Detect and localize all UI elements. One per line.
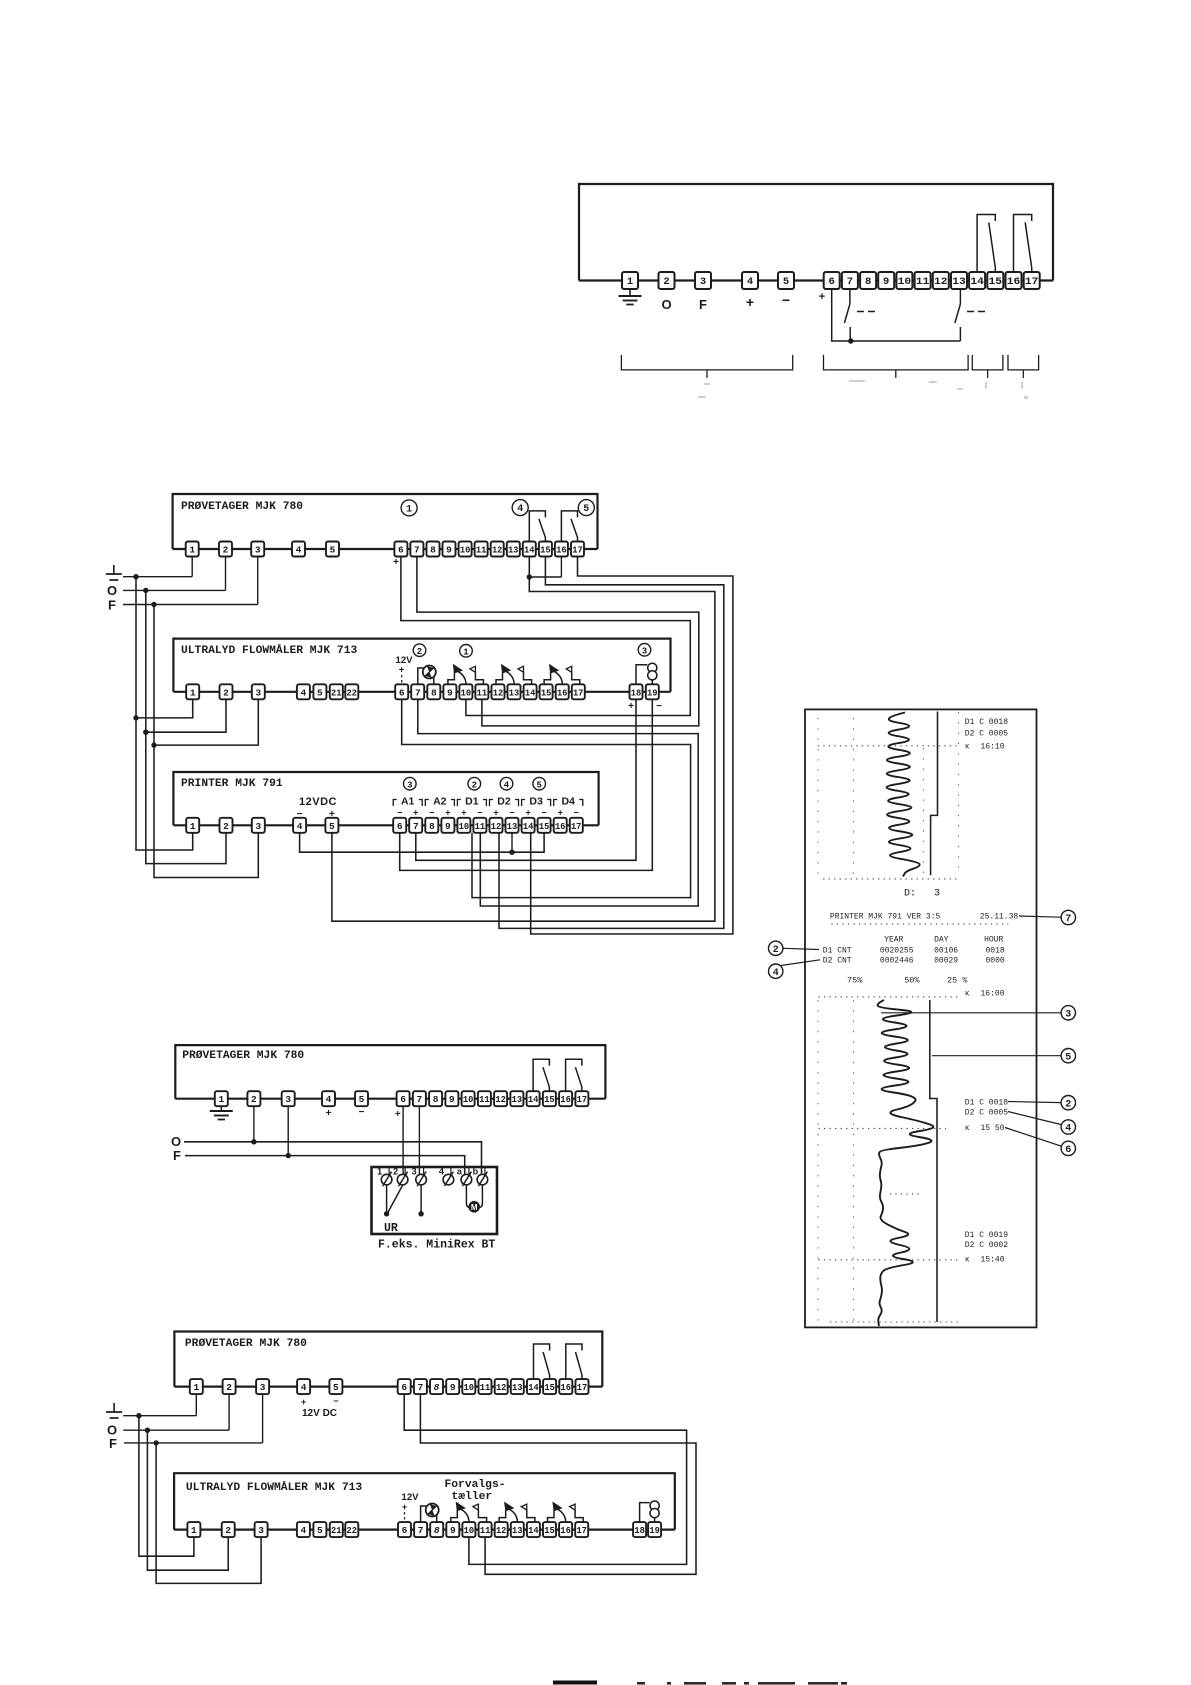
UR screw terminal 2 <box>397 1174 408 1185</box>
svg-text:D2 C 0005: D2 C 0005 <box>965 730 1008 739</box>
terminal 13 (sampler 2) <box>510 1091 523 1106</box>
terminal row wire <box>173 548 598 550</box>
terminal 7 (printer) <box>409 818 422 833</box>
dotted grid line <box>818 745 959 747</box>
UR contact 1-2 <box>386 1185 388 1214</box>
svg-text:0002446: 0002446 <box>880 957 914 966</box>
channel label D2 <box>490 800 494 807</box>
svg-text:00029: 00029 <box>934 957 958 966</box>
dotted grid line <box>819 1127 947 1129</box>
linkage dash <box>967 311 974 313</box>
earth riser to flow meter 1 <box>139 1416 194 1557</box>
circled number 1 <box>401 500 417 516</box>
terminal 9 (flow meter) <box>443 684 456 699</box>
earth bus wire <box>123 576 192 578</box>
terminal 2 (printer) <box>220 818 233 833</box>
wire 2 down <box>253 1106 255 1142</box>
svg-text:+: + <box>558 808 563 818</box>
svg-text:9: 9 <box>447 687 453 698</box>
dotted grid line <box>823 878 957 880</box>
terminal 9 (top strip) <box>878 272 894 289</box>
wire terminal 6 down and across <box>832 288 961 341</box>
svg-text:+: + <box>628 701 634 712</box>
O riser to flowmeter 2 and printer 2 <box>146 590 226 863</box>
circled number 2 <box>1061 1096 1075 1110</box>
svg-text:2: 2 <box>417 647 422 657</box>
pulse contact 9-10-11 <box>451 1510 458 1523</box>
svg-text:M: M <box>471 1203 478 1212</box>
channel label D3 <box>522 800 526 807</box>
terminal 2 (flow meter 2) <box>222 1522 235 1537</box>
terminal 1 (top strip) <box>622 272 638 289</box>
terminal 19 (flow meter 2) <box>648 1522 661 1537</box>
terminal row wire <box>174 1385 602 1387</box>
svg-text:4: 4 <box>297 821 303 832</box>
svg-text:3: 3 <box>260 1382 266 1393</box>
terminal 12 (sampler 3) <box>495 1379 508 1394</box>
ground <box>210 1110 233 1112</box>
svg-text:14: 14 <box>524 545 535 556</box>
svg-text:PRINTER MJK 791 VER 3:5: PRINTER MJK 791 VER 3:5 <box>830 913 941 922</box>
terminal 8 (flow meter 2) <box>430 1522 443 1537</box>
svg-text:5: 5 <box>317 687 323 698</box>
terminal 8 (sampler) <box>427 542 440 557</box>
circled number 2 <box>468 777 481 790</box>
top terminal-strip box <box>579 184 1053 281</box>
terminal 5 (flow meter 2) <box>313 1522 326 1537</box>
svg-text:15: 15 <box>544 1094 555 1105</box>
svg-text:3: 3 <box>934 889 940 900</box>
svg-text:21: 21 <box>331 687 342 698</box>
junction F <box>286 1153 291 1158</box>
junction UR 1-2 <box>384 1211 389 1216</box>
svg-text:D1 C 0019: D1 C 0019 <box>965 1231 1008 1240</box>
svg-text:19: 19 <box>649 1525 660 1536</box>
terminal 9 (sampler 2) <box>445 1091 458 1106</box>
linkage dash <box>857 311 864 313</box>
svg-text:7: 7 <box>418 1382 424 1393</box>
terminal 19 (flow meter) <box>646 684 659 699</box>
relay contact 16-17 <box>566 1344 582 1379</box>
svg-text:10: 10 <box>461 687 472 698</box>
svg-text:10: 10 <box>464 1382 475 1393</box>
junction earth <box>136 1413 141 1418</box>
terminal 10 (sampler 2) <box>462 1091 475 1106</box>
svg-text:tæller: tæller <box>452 1491 493 1503</box>
F bus wire <box>123 604 258 606</box>
svg-text:2: 2 <box>663 276 669 288</box>
junction 14 <box>527 574 532 579</box>
terminal 6 (printer) <box>393 818 406 833</box>
terminal 7 (sampler 2) <box>413 1091 426 1106</box>
svg-text:11: 11 <box>916 276 930 288</box>
pulse contact 12-13-14 <box>496 672 503 685</box>
terminal 13 (flow meter 2) <box>511 1522 524 1537</box>
terminal 9 (sampler 3) <box>446 1379 459 1394</box>
svg-text:+: + <box>525 808 530 818</box>
svg-text:9: 9 <box>446 545 452 556</box>
terminal 3 (printer) <box>252 818 265 833</box>
wire flowmeter 7 to printer 11 <box>418 699 698 906</box>
svg-text:14: 14 <box>525 687 536 698</box>
svg-text:13: 13 <box>509 687 520 698</box>
terminal 22 (flow meter 2) <box>345 1522 358 1537</box>
svg-text:4: 4 <box>1065 1124 1071 1135</box>
svg-text:UR: UR <box>384 1222 398 1235</box>
svg-text:18: 18 <box>634 1525 645 1536</box>
svg-text:2: 2 <box>223 821 229 832</box>
terminal 16 (sampler 2) <box>559 1091 572 1106</box>
svg-text:4: 4 <box>517 504 523 515</box>
F wire to UR terminal a <box>185 1156 465 1175</box>
svg-text:YEAR: YEAR <box>884 935 903 944</box>
terminal 17 (sampler) <box>571 542 584 557</box>
junction O <box>143 588 148 593</box>
terminal 15 (printer) <box>538 818 551 833</box>
svg-text:22: 22 <box>347 1525 358 1536</box>
ground under terminal 1 <box>629 288 631 296</box>
svg-text:1: 1 <box>463 647 469 657</box>
svg-text:ULTRALYD FLOWMÅLER MJK 713: ULTRALYD FLOWMÅLER MJK 713 <box>181 644 357 657</box>
svg-text:22: 22 <box>347 687 358 698</box>
svg-text:D2 C 0002: D2 C 0002 <box>965 1241 1008 1250</box>
svg-text:D1 C 0018: D1 C 0018 <box>965 1098 1008 1107</box>
svg-text:2: 2 <box>472 780 477 790</box>
terminal 5 (sampler 2) <box>355 1091 368 1106</box>
svg-text:1: 1 <box>189 545 195 556</box>
svg-text:8: 8 <box>429 821 435 832</box>
svg-text:D2 C 0005: D2 C 0005 <box>965 1108 1008 1117</box>
cut-off diagram fragments at page bottom <box>553 1681 597 1685</box>
svg-text:13: 13 <box>512 1382 523 1393</box>
svg-text:3: 3 <box>407 780 412 790</box>
terminal 14 (sampler 2) <box>527 1091 540 1106</box>
terminal row wire <box>579 279 1053 281</box>
svg-text:D1 C 0018: D1 C 0018 <box>965 718 1008 727</box>
terminal 6 (top strip) <box>824 272 840 289</box>
svg-text:13: 13 <box>512 1094 523 1105</box>
terminal 17 (flow meter 2) <box>575 1522 588 1537</box>
svg-text:6: 6 <box>1065 1145 1071 1156</box>
callout 5 <box>932 1055 1061 1057</box>
svg-text:16: 16 <box>561 1382 572 1393</box>
svg-text:D4: D4 <box>561 796 575 808</box>
junction <box>848 338 853 343</box>
svg-text:5: 5 <box>333 1382 339 1393</box>
svg-text:1: 1 <box>218 1094 224 1105</box>
svg-text:2: 2 <box>251 1094 257 1105</box>
svg-text:+: + <box>493 808 498 818</box>
box PROVETAGER MJK 780 (diagram 1) <box>173 494 598 549</box>
svg-text:16:10: 16:10 <box>981 743 1005 752</box>
terminal 14 (sampler) <box>523 542 536 557</box>
svg-text:1: 1 <box>190 821 196 832</box>
wire sampler3-6 to flowmeter 10 <box>404 1394 686 1564</box>
terminal 16 (top strip) <box>1006 272 1022 289</box>
dotted grid line <box>817 718 819 876</box>
terminal 4 (sampler 2) <box>322 1091 335 1106</box>
terminal 16 (printer) <box>554 818 567 833</box>
svg-text:4: 4 <box>326 1094 332 1105</box>
svg-text:12VDC: 12VDC <box>299 796 337 808</box>
terminal 2 (top strip) <box>659 272 675 289</box>
terminal 9 (printer) <box>441 818 454 833</box>
svg-text:κ: κ <box>965 743 970 752</box>
relay contact 16-17 <box>566 1059 582 1091</box>
svg-text:0020255: 0020255 <box>880 947 914 956</box>
terminal 2 (sampler) <box>219 542 232 557</box>
terminal 3 (flow meter) <box>252 684 265 699</box>
svg-text:F: F <box>109 1436 117 1451</box>
svg-text:6: 6 <box>398 545 404 556</box>
svg-text:+: + <box>326 1108 332 1119</box>
UR screw terminal 3 <box>416 1174 427 1185</box>
svg-text:b: b <box>473 1167 479 1177</box>
wire printer 4 to 13/15 (minus bus) <box>300 833 544 852</box>
wire sampler 6 to flowmeter 10 <box>401 557 690 716</box>
setpoint step line lower <box>930 1000 937 1322</box>
terminal 14 (flow meter 2) <box>527 1522 540 1537</box>
terminal 4 (flow meter) <box>297 684 310 699</box>
terminal 10 (flow meter) <box>459 684 472 699</box>
svg-text:F.eks. MiniRex BT: F.eks. MiniRex BT <box>378 1239 495 1252</box>
setpoint step line upper <box>931 712 938 876</box>
terminal 8 (sampler 3) <box>430 1379 443 1394</box>
svg-text:12: 12 <box>496 1525 507 1536</box>
svg-text:−: − <box>541 808 546 818</box>
svg-text:6: 6 <box>401 1382 407 1393</box>
terminal 12 (flow meter 2) <box>495 1522 508 1537</box>
svg-text:7: 7 <box>415 687 421 698</box>
terminal 21 (flow meter) <box>330 684 343 699</box>
svg-text:6: 6 <box>400 1094 406 1105</box>
switch contact under 13 <box>959 288 961 304</box>
svg-text:4: 4 <box>301 1525 307 1536</box>
F riser to flow meter 3 <box>156 1443 261 1584</box>
svg-text:8: 8 <box>431 687 437 698</box>
terminal 7 (sampler 3) <box>414 1379 427 1394</box>
terminal 16 (sampler) <box>555 542 568 557</box>
svg-text:−: − <box>397 808 402 818</box>
terminal 11 (sampler 2) <box>478 1091 491 1106</box>
svg-text:+: + <box>395 1109 401 1120</box>
svg-text:−: − <box>429 808 434 818</box>
UR terminal 3 lead <box>420 1185 422 1214</box>
svg-text:17: 17 <box>576 1525 587 1536</box>
svg-text:+: + <box>461 808 466 818</box>
dotted grid line <box>853 718 855 876</box>
UR motor M <box>465 1185 467 1203</box>
svg-text:3: 3 <box>412 1167 417 1177</box>
svg-text:21: 21 <box>331 1525 342 1536</box>
svg-text:14: 14 <box>528 1094 539 1105</box>
svg-text:5: 5 <box>359 1094 365 1105</box>
svg-text:12: 12 <box>492 545 503 556</box>
terminal 13 (top strip) <box>951 272 967 289</box>
svg-text:F: F <box>108 598 116 613</box>
flow curve upper chart <box>887 713 920 877</box>
callout 2 right <box>1008 1102 1061 1103</box>
terminal 15 (sampler 3) <box>543 1379 556 1394</box>
bracket terminals 16-17 <box>1008 355 1039 370</box>
svg-text:14: 14 <box>523 821 534 832</box>
svg-text:2: 2 <box>773 945 779 956</box>
svg-text:16: 16 <box>560 1094 571 1105</box>
circled number 7 <box>1061 910 1075 924</box>
junction F <box>151 602 156 607</box>
circled number 5 <box>533 777 546 790</box>
O bus <box>123 1429 229 1431</box>
svg-text:3: 3 <box>1065 1009 1071 1020</box>
pulse contact 12-13-14 <box>499 1510 506 1523</box>
svg-text:10: 10 <box>898 276 912 288</box>
terminal row wire <box>173 824 598 826</box>
pulse contact 15-16-17 <box>548 1510 555 1523</box>
terminal 10 (flow meter 2) <box>462 1522 475 1537</box>
bracket terminals 14-15 <box>972 355 1003 370</box>
svg-text:15:40: 15:40 <box>981 1255 1005 1264</box>
dotted grid line <box>819 996 960 998</box>
svg-text:+: + <box>445 808 450 818</box>
svg-text:25 %: 25 % <box>947 976 968 986</box>
terminal 5 (printer) <box>325 818 338 833</box>
svg-text:4: 4 <box>747 276 753 288</box>
linkage dash <box>978 311 985 313</box>
svg-text:PRØVETAGER MJK 780: PRØVETAGER MJK 780 <box>182 1050 304 1062</box>
flow meter symbol <box>640 1503 650 1523</box>
wire flowmeter 19 to printer 6 <box>400 699 653 870</box>
dotted grid line <box>819 1259 960 1261</box>
circled number 3 <box>638 644 651 657</box>
terminal 3 (top strip) <box>695 272 711 289</box>
svg-text:5: 5 <box>330 545 336 556</box>
svg-text:5: 5 <box>583 504 589 515</box>
faint caption remnants <box>704 383 710 385</box>
terminal 7 (sampler) <box>410 542 423 557</box>
terminal 13 (printer) <box>506 818 519 833</box>
svg-text:10: 10 <box>463 1094 474 1105</box>
junction O <box>251 1139 256 1144</box>
svg-text:00106: 00106 <box>934 947 958 956</box>
ground <box>619 295 642 297</box>
relay contact 16-17 <box>561 511 577 542</box>
svg-text:D2: D2 <box>497 796 511 808</box>
O wire to UR terminal b <box>184 1142 482 1175</box>
terminal 7 (flow meter) <box>411 684 424 699</box>
O riser to flow meter 2 <box>147 1430 228 1570</box>
svg-text:17: 17 <box>577 1382 588 1393</box>
channel label A2 <box>425 800 429 807</box>
svg-text:+: + <box>402 1502 408 1513</box>
svg-text:17: 17 <box>571 821 582 832</box>
svg-text:D1: D1 <box>465 796 479 808</box>
svg-text:3: 3 <box>285 1094 291 1105</box>
wire 3 down <box>287 1106 289 1156</box>
junction <box>151 742 156 747</box>
callout 3 <box>881 1012 1061 1014</box>
terminal 17 (sampler 2) <box>575 1091 588 1106</box>
channel label A1 <box>393 800 397 807</box>
svg-text:O: O <box>661 297 671 312</box>
svg-text:−: − <box>509 808 514 818</box>
svg-text:8: 8 <box>430 545 436 556</box>
svg-text:9: 9 <box>450 1382 456 1393</box>
circled number 4 <box>512 500 528 516</box>
svg-text:6: 6 <box>829 276 835 288</box>
terminal 1 (sampler 2) <box>215 1091 228 1106</box>
F riser to flowmeter 3 and printer 3 <box>154 605 258 878</box>
svg-text:8: 8 <box>434 1525 440 1536</box>
terminal 15 (top strip) <box>987 272 1003 289</box>
svg-text:17: 17 <box>572 545 583 556</box>
svg-text:2: 2 <box>223 545 229 556</box>
motor/clock symbol <box>423 666 436 679</box>
svg-text:D:: D: <box>904 889 916 900</box>
pulse contact 9-10-11 <box>448 672 455 685</box>
wire 7 down to UR 3 <box>418 1106 420 1175</box>
terminal 17 (printer) <box>570 818 583 833</box>
terminal 2 (sampler 2) <box>247 1091 260 1106</box>
terminal 17 (sampler 3) <box>576 1379 589 1394</box>
terminal 11 (sampler) <box>475 542 488 557</box>
svg-text:A2: A2 <box>433 796 447 808</box>
terminal 10 (sampler 3) <box>462 1379 475 1394</box>
wire flowmeter 6 to printer 10 <box>402 699 691 897</box>
svg-text:17: 17 <box>573 687 584 698</box>
svg-text:14: 14 <box>528 1382 539 1393</box>
svg-text:11: 11 <box>476 545 487 556</box>
relay contact 14-15 <box>529 511 545 542</box>
terminal 12 (sampler 2) <box>494 1091 507 1106</box>
svg-text:9: 9 <box>883 276 889 288</box>
terminal 16 (flow meter 2) <box>559 1522 572 1537</box>
relay contact 16-17 <box>1014 215 1032 272</box>
box PROVETAGER MJK 780 (diagram 2) <box>175 1045 605 1099</box>
junction <box>133 715 138 720</box>
terminal row wire <box>173 691 670 693</box>
svg-text:11: 11 <box>480 1525 491 1536</box>
svg-text:DAY: DAY <box>934 935 949 944</box>
ground under terminal 1 <box>220 1106 222 1111</box>
svg-text:F: F <box>699 297 707 312</box>
svg-text:D2 CNT: D2 CNT <box>823 957 852 966</box>
terminal 5 (sampler) <box>326 542 339 557</box>
svg-text:14: 14 <box>970 276 984 288</box>
terminal 15 (flow meter 2) <box>543 1522 556 1537</box>
svg-text:11: 11 <box>480 1382 491 1393</box>
terminal 1 (sampler 3) <box>190 1379 203 1394</box>
svg-text:3: 3 <box>642 646 647 656</box>
svg-text:κ: κ <box>965 990 970 999</box>
svg-text:13: 13 <box>952 276 966 288</box>
terminal 16 (sampler 3) <box>559 1379 572 1394</box>
switch contact under 7 <box>849 288 851 304</box>
UR screw terminal a <box>461 1174 472 1185</box>
svg-text:2: 2 <box>225 1525 231 1536</box>
svg-text:8: 8 <box>865 276 871 288</box>
svg-text:−: − <box>656 701 662 712</box>
terminal 1 (sampler) <box>186 542 199 557</box>
link 14 to 16 <box>529 576 561 578</box>
svg-text:4: 4 <box>296 545 302 556</box>
svg-text:12: 12 <box>493 687 504 698</box>
earth riser to flowmeter 1 and printer 1 <box>136 577 193 850</box>
svg-text:−: − <box>574 808 579 818</box>
dotted underline <box>831 923 1008 925</box>
circled number 6 <box>1061 1141 1075 1155</box>
terminal row wire <box>174 1528 675 1530</box>
terminal 11 (flow meter) <box>475 684 488 699</box>
